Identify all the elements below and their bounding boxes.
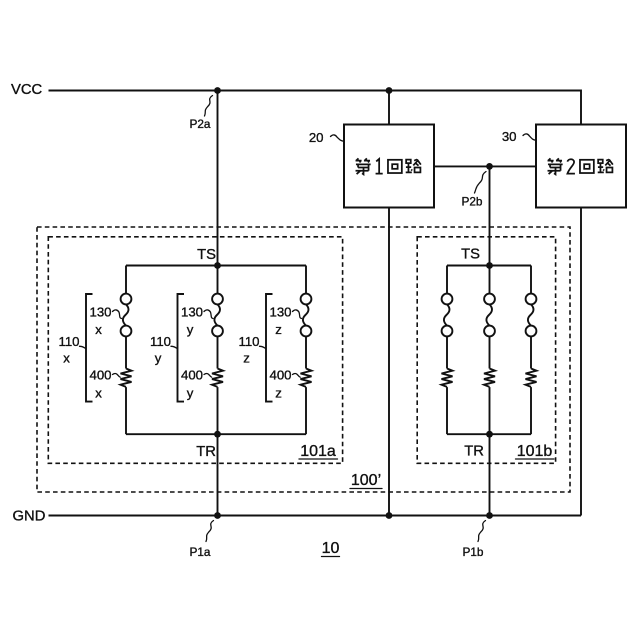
wire: lower contact to resistor 400y	[217, 336, 219, 368]
wire: lower contact to resistor 400z	[305, 336, 307, 368]
leader from 400y to resistor	[204, 373, 212, 377]
svg-text:10: 10	[322, 540, 340, 557]
switch contact pair 130x: upper circle	[121, 294, 132, 305]
wire from P2b node down to TS bus of 101b	[489, 166, 491, 265]
svg-text:TR: TR	[464, 444, 484, 460]
wire: TS bus to upper contact of branch z	[305, 266, 307, 294]
switch contact pair 130: curved link	[444, 304, 450, 325]
wire VCC to top of U1	[388, 91, 390, 125]
svg-text:110: 110	[150, 334, 171, 349]
wire: lower contact to resistor 400x	[125, 336, 127, 368]
TR bus of 101b	[447, 433, 531, 435]
node P2b on U1-U2 wire	[486, 163, 493, 170]
svg-text:130: 130	[269, 305, 291, 320]
svg-text:400: 400	[181, 368, 203, 383]
leader tick from 110x to bracket	[80, 346, 86, 348]
switch contact pair 130y: curved link	[214, 304, 220, 325]
node TS junction 101b	[486, 262, 493, 269]
svg-text:x: x	[95, 322, 102, 337]
svg-text:30: 30	[502, 129, 517, 144]
circuit block U1 (第1回路)	[344, 125, 434, 208]
leader from 30 to U2	[523, 134, 536, 140]
resistor 400	[526, 369, 537, 387]
wire: resistor 400y to TR bus	[217, 387, 219, 434]
switch contact pair 130y: lower circle	[212, 326, 223, 337]
svg-text:P1a: P1a	[190, 545, 211, 559]
wire: resistor 400 to TR bus	[489, 387, 491, 434]
bracket grouping branch 110z	[266, 294, 273, 402]
underline of 101b	[516, 458, 555, 460]
switch contact pair 130: upper circle	[526, 294, 537, 305]
resistor 400z	[301, 369, 312, 387]
svg-text:GND: GND	[13, 508, 46, 524]
svg-text:y: y	[187, 386, 194, 401]
svg-text:TS: TS	[197, 247, 216, 263]
wire: resistor 400z to TR bus	[305, 387, 307, 434]
node P1b on GND	[486, 512, 493, 519]
underline of 10	[322, 556, 340, 558]
svg-text:z: z	[275, 386, 282, 401]
svg-text:P2a: P2a	[190, 117, 211, 131]
switch contact pair 130: upper circle	[442, 294, 453, 305]
svg-text:400: 400	[269, 368, 291, 383]
TS bus of 101a	[126, 265, 306, 267]
leader from node to label P2b	[475, 172, 487, 194]
resistor 400	[484, 369, 495, 387]
leader from 130z to contacts	[293, 310, 302, 319]
resistor 400	[442, 369, 453, 387]
bracket grouping branch 110x	[86, 294, 93, 402]
leader from node to label P1a	[206, 521, 214, 542]
wire: resistor 400x to TR bus	[125, 387, 127, 434]
wire from VCC node P2a down to TS bus of 101a	[217, 91, 219, 266]
node: U1 branch junction on GND	[386, 512, 393, 519]
svg-text:TS: TS	[461, 247, 480, 263]
switch contact pair 130z: curved link	[303, 304, 309, 325]
switch contact pair 130z: upper circle	[301, 294, 312, 305]
resistor 400y	[212, 369, 223, 387]
wire: lower contact to resistor 400	[446, 336, 448, 368]
svg-text:x: x	[95, 386, 102, 401]
svg-text:130: 130	[181, 305, 203, 320]
wire: lower contact to resistor 400	[530, 336, 532, 368]
wire VCC rail, right end drops to circuit block U2	[49, 91, 582, 125]
wire between U1 and U2	[434, 165, 536, 167]
switch contact pair 130: lower circle	[526, 326, 537, 337]
switch contact pair 130x: lower circle	[121, 326, 132, 337]
wire: resistor 400 to TR bus	[446, 387, 448, 434]
resistor 400x	[121, 369, 132, 387]
TR bus of 101a	[126, 433, 306, 435]
underline of 100'	[350, 488, 382, 490]
switch contact pair 130x: curved link	[123, 304, 129, 325]
wire: TS bus to upper contact of branch x	[125, 266, 127, 294]
wire GND rail	[49, 515, 582, 517]
svg-text:z: z	[275, 322, 282, 337]
dashed enclosure 100'	[37, 227, 570, 492]
wire: TS bus to upper contact of branch y	[217, 266, 219, 294]
svg-text:20: 20	[309, 130, 324, 145]
svg-text:101a: 101a	[300, 443, 336, 460]
wire TR bus 101b down to GND node P1b	[489, 434, 491, 515]
wire: TS bus to upper contact of branch	[446, 266, 448, 294]
wire from bottom of U2 down to GND (right riser)	[580, 208, 582, 516]
wire: lower contact to resistor 400	[489, 336, 491, 368]
switch contact pair 130: curved link	[486, 304, 492, 325]
wire TR bus 101a down to GND node P1a	[217, 434, 219, 515]
svg-text:130: 130	[89, 305, 111, 320]
svg-text:100’: 100’	[351, 472, 381, 489]
svg-text:VCC: VCC	[11, 82, 43, 98]
leader from node to label P1b	[478, 521, 486, 542]
node TR junction 101a	[214, 431, 221, 438]
node TR junction 101b	[486, 431, 493, 438]
leader from 20 to U1	[331, 135, 344, 141]
wire: TS bus to upper contact of branch	[489, 266, 491, 294]
svg-text:110: 110	[238, 334, 259, 349]
svg-text:P1b: P1b	[463, 545, 484, 559]
switch contact pair 130: upper circle	[484, 294, 495, 305]
wire from bottom of U1 down to GND	[388, 208, 390, 516]
leader from 130x to contacts	[113, 310, 122, 319]
node P1a on GND	[214, 512, 221, 519]
svg-text:z: z	[243, 351, 250, 366]
node P2a junction on VCC	[214, 87, 221, 94]
leader from 130y to contacts	[204, 310, 213, 319]
leader tick from 110y to bracket	[171, 346, 177, 348]
dashed enclosure 101b	[417, 237, 555, 463]
leader from 400x to resistor	[113, 373, 121, 377]
dashed enclosure 101a	[48, 237, 342, 463]
svg-text:400: 400	[89, 368, 111, 383]
leader from node to label P2a	[205, 96, 213, 117]
node TS junction 101a	[214, 262, 221, 269]
svg-text:110: 110	[58, 334, 79, 349]
node: junction on VCC above U1	[386, 87, 393, 94]
svg-text:TR: TR	[196, 444, 216, 460]
switch contact pair 130: lower circle	[484, 326, 495, 337]
svg-text:x: x	[63, 351, 70, 366]
wire: TS bus to upper contact of branch	[530, 266, 532, 294]
leader from 400z to resistor	[293, 373, 301, 377]
svg-text:y: y	[187, 322, 194, 337]
bracket grouping branch 110y	[178, 294, 185, 402]
leader tick from 110z to bracket	[260, 346, 266, 348]
wire: resistor 400 to TR bus	[530, 387, 532, 434]
circuit block U2 (第2回路)	[536, 125, 626, 208]
switch contact pair 130: curved link	[528, 304, 534, 325]
TS bus of 101b	[447, 265, 531, 267]
svg-text:P2b: P2b	[462, 194, 483, 208]
svg-text:y: y	[155, 351, 162, 366]
switch contact pair 130z: lower circle	[301, 326, 312, 337]
svg-text:101b: 101b	[517, 443, 553, 460]
switch contact pair 130y: upper circle	[212, 294, 223, 305]
underline of 101a	[299, 458, 338, 460]
switch contact pair 130: lower circle	[442, 326, 453, 337]
